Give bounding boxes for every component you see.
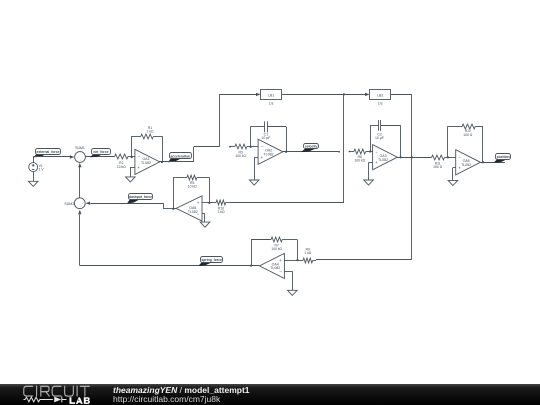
wire OA6 - input to ground (202, 214, 205, 223)
op-amp OA6 (TL082) (176, 196, 202, 221)
op-amp OA4 (TL082) (260, 253, 285, 278)
svg-text:10 µF: 10 µF (375, 136, 384, 140)
node OA5 output junction (482, 161, 484, 163)
svg-text:10 kΩ: 10 kΩ (188, 184, 197, 188)
wire OA4 - input to ground (284, 271, 292, 290)
wire rail drop to R10 (230, 94, 344, 202)
svg-text:LB2: LB2 (377, 94, 383, 98)
svg-text:dashpot_force: dashpot_force (129, 195, 152, 199)
block LB2 (1/s) (370, 90, 391, 100)
label SUM1 (75, 146, 85, 150)
svg-text:velocity: velocity (305, 145, 318, 149)
label OA6 (188, 206, 198, 214)
svg-text:+: + (279, 258, 282, 263)
label R9 (304, 248, 311, 256)
label R5 (188, 181, 197, 189)
net flag net_force (90, 149, 110, 158)
svg-text:acceleration: acceleration (170, 154, 190, 158)
node OA4 + input junction (296, 259, 298, 261)
label R2 (117, 161, 126, 169)
resistor R2 (10 k&#937;) (115, 154, 135, 159)
svg-text:LB1: LB1 (268, 94, 274, 98)
op-amp OA1 (TL082) (135, 149, 160, 174)
ground for OA3 (364, 180, 374, 185)
arrow into SUM2 bottom input (78, 210, 81, 215)
svg-text:1 kΩ: 1 kΩ (218, 210, 225, 214)
B (84, 397, 90, 404)
wire stub R3 input (229, 146, 231, 148)
svg-text:100 Ω: 100 Ω (463, 133, 473, 137)
resistor R3 (100 k&#937;) (230, 144, 258, 149)
op-amp OA2 (TL082) (258, 139, 283, 164)
node OA6 + input junction (208, 202, 210, 204)
summing node SUM1 (75, 152, 86, 163)
node OA3 output junction (399, 156, 401, 158)
resistor squiggle (24, 397, 53, 402)
label LB2 value (378, 102, 383, 106)
wire OA5 output (position) (481, 162, 505, 164)
label R7 (271, 244, 282, 252)
arrow into SUM1 left input (70, 155, 75, 158)
svg-text:100 kΩ: 100 kΩ (235, 154, 246, 158)
resistor R7 (100 k&#937;) feedback (251, 237, 297, 266)
label R10 (218, 207, 225, 215)
wire OA2 output (velocity) (283, 151, 340, 153)
node OA5 inverting input (447, 156, 449, 158)
net flag spring_force (198, 257, 222, 266)
op-amp OA3 (TL082) (373, 145, 398, 170)
svg-text:100 kΩ: 100 kΩ (271, 247, 282, 251)
wire OA5 + input to ground (453, 168, 456, 181)
junction rail to dashpot drop (343, 93, 345, 95)
label LB1 value (269, 102, 274, 106)
wire OA1 + input to ground (130, 167, 135, 177)
wire OA3 + input to ground (369, 163, 373, 181)
svg-text:10 kΩ: 10 kΩ (117, 165, 126, 169)
svg-text:1 kΩ: 1 kΩ (304, 251, 311, 255)
resistor R5 (10 k&#937;) feedback (173, 175, 209, 209)
svg-text:10 µF: 10 µF (261, 136, 270, 140)
I (76, 386, 78, 396)
op-amp OA5 (TL082) (456, 150, 481, 175)
label OA1 (141, 157, 151, 165)
net flag acceleration (168, 153, 192, 163)
resistor R11 (100 &#937;) (397, 155, 455, 160)
svg-text:−: − (138, 154, 141, 159)
ground for OA1 (126, 177, 136, 182)
svg-text:+: + (137, 165, 140, 170)
CircuitLab logo (0, 384, 110, 405)
node OA3 inverting input (369, 150, 371, 152)
svg-text:1/s: 1/s (269, 102, 274, 106)
wire spring row to SUM2 (80, 214, 260, 265)
node OA2 inverting input (250, 146, 252, 148)
wire drop to OA3 output (411, 94, 413, 157)
arrow into LB2 (365, 93, 370, 96)
svg-text:+: + (197, 201, 200, 206)
svg-text:−: − (375, 149, 378, 154)
net flag dashpot_force (127, 194, 152, 204)
svg-text:TL082: TL082 (141, 161, 151, 165)
svg-text:TL082: TL082 (188, 210, 198, 214)
resistor R12 (100 &#937;) feedback (448, 124, 484, 162)
resistor R1 (1 k&#937;) feedback (132, 134, 163, 162)
label OA5 (461, 159, 471, 167)
svg-text:TL082: TL082 (264, 152, 274, 156)
svg-text:+: + (261, 155, 264, 160)
ground for OA5 (448, 180, 458, 185)
A (76, 397, 83, 404)
svg-text:1 V: 1 V (39, 168, 45, 172)
svg-text:1/s: 1/s (378, 102, 383, 106)
voltage source V1 (1 V) (29, 157, 45, 181)
net flag velocity (301, 144, 319, 153)
svg-text:1 kΩ: 1 kΩ (147, 129, 154, 133)
svg-text:net_force: net_force (93, 150, 108, 154)
wire OA2 + input to ground (254, 157, 258, 180)
R (41, 386, 49, 396)
net flag external_force (33, 149, 60, 158)
label C2 (375, 133, 384, 141)
capacitor C2 (10 &#181;F) feedback (370, 120, 400, 157)
label R3 (235, 150, 246, 158)
svg-text:−: − (261, 144, 264, 149)
U (65, 386, 74, 396)
label R1 (147, 126, 154, 134)
ground for OA2 (249, 180, 259, 185)
label OA2 (264, 149, 274, 157)
resistor R6 (100 k&#937;) (349, 149, 373, 154)
wire position drop to spring row (316, 157, 412, 260)
svg-text:SUM2: SUM2 (64, 202, 74, 206)
node OA6 feedback tap (172, 208, 174, 210)
label R6 (354, 155, 365, 163)
node OA1 inverting input (131, 156, 133, 158)
wire dashpot to SUM2 (91, 203, 177, 209)
L (70, 397, 76, 404)
label OA4 (270, 262, 280, 270)
C (52, 386, 61, 396)
label R12 (463, 129, 473, 137)
arrow into SUM1 bottom input (78, 163, 81, 168)
wire LB2 to position drop (391, 94, 412, 96)
svg-text:position: position (497, 155, 510, 159)
label SUM2 (64, 202, 74, 206)
resistor R9 (1 k&#937;) (298, 258, 317, 263)
svg-text:SUM1: SUM1 (75, 146, 85, 150)
svg-text:TL082: TL082 (378, 158, 388, 162)
net flag position (494, 154, 511, 163)
svg-text:+: + (375, 160, 378, 165)
wire OA4 + input (284, 260, 297, 262)
label C1 (261, 133, 270, 141)
resistor R10 (1 k&#937;) (209, 200, 230, 205)
svg-text:100 kΩ: 100 kΩ (354, 159, 365, 163)
wire step up to rail (194, 94, 220, 162)
svg-text:+: + (458, 165, 461, 170)
arrow into SUM2 right input (86, 202, 91, 205)
block LB1 (1/s) (261, 90, 282, 100)
svg-text:external_force: external_force (36, 150, 59, 154)
node OA1 output junction (161, 161, 163, 163)
svg-text:TL082: TL082 (461, 163, 471, 167)
wire external_force to SUM1 (33, 156, 70, 158)
diode (54, 397, 61, 403)
wire LB1 to LB2 (282, 94, 365, 96)
wire OA3 output (0, 0, 1, 1)
summing node SUM2 (74, 198, 85, 209)
svg-text:TL082: TL082 (270, 266, 280, 270)
ground for OA4 (288, 290, 298, 295)
wire OA1 output (159, 161, 194, 163)
svg-text:100 Ω: 100 Ω (433, 165, 443, 169)
label R11 (433, 162, 443, 170)
I (36, 386, 38, 396)
label OA3 (378, 154, 388, 162)
wire SUM1 to R2 (85, 156, 114, 158)
capacitor C1 (10 &#181;F) feedback (250, 121, 286, 151)
T (80, 386, 89, 396)
node OA4 feedback tap (250, 264, 252, 266)
junction OA3 output with position drop (411, 156, 413, 158)
wire OA6 + input (202, 202, 209, 204)
wire SUM1 to SUM2 link (79, 167, 81, 198)
footer bar (0, 384, 540, 405)
svg-text:spring_force: spring_force (201, 258, 221, 262)
svg-text:−: − (458, 154, 461, 159)
ground for OA6 (200, 222, 210, 227)
ground for V1 (28, 181, 38, 186)
arrow into LB1 (256, 93, 261, 96)
wire rail to LB1 (219, 94, 256, 96)
C (24, 386, 33, 396)
node OA2 output junction (285, 151, 287, 153)
